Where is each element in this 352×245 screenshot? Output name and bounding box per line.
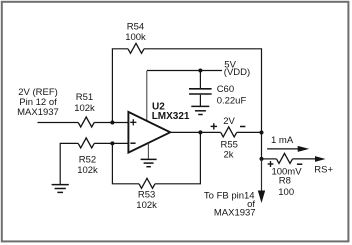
wire: FB bus down with arrow to MAX1937: [258, 159, 265, 203]
svg-text:(VDD): (VDD): [224, 67, 250, 78]
arrow: 1 mA current direction: [267, 135, 309, 152]
svg-text:MAX1937: MAX1937: [214, 208, 256, 219]
node: 5V / C60 junction: [198, 69, 202, 73]
node: - input junction: [110, 141, 114, 145]
svg-text:LMX321: LMX321: [152, 111, 190, 122]
resistor R52 102k: [77, 138, 98, 176]
op-amp U2 LMX321: [128, 102, 190, 153]
arrow: RS+ output: [314, 156, 333, 176]
svg-text:0.22uF: 0.22uF: [217, 96, 247, 107]
wire: right bus down to R8 row: [261, 133, 263, 159]
wire: op-amp V- pin to ground: [147, 144, 149, 159]
svg-text:R54: R54: [127, 21, 144, 32]
resistor R51 102k: [74, 92, 95, 127]
capacitor C60 0.22uF: [189, 71, 246, 107]
svg-text:100: 100: [278, 187, 294, 198]
ground (op-amp V-): [141, 159, 157, 166]
svg-text:100k: 100k: [125, 32, 146, 43]
svg-text:R51: R51: [76, 92, 93, 103]
svg-text:102k: 102k: [77, 165, 98, 176]
text: 5V (VDD) supply label: [224, 59, 250, 78]
resistor R55 2k with 2V sense labels: [211, 116, 262, 161]
svg-text:2V: 2V: [223, 116, 235, 127]
svg-text:102k: 102k: [136, 200, 157, 211]
resistor R54 100k feedback from output bus to + input: [112, 21, 261, 132]
svg-text:MAX1937: MAX1937: [17, 107, 59, 118]
svg-text:RS+: RS+: [314, 165, 333, 176]
wire: op-amp output: [171, 131, 221, 133]
wire: ground lead to R52: [60, 143, 78, 184]
svg-text:R52: R52: [79, 154, 96, 165]
node: R8 / FB junction: [260, 157, 264, 161]
node: output junction: [198, 130, 202, 134]
text: source label 2V (REF) Pin 12 of MAX1937: [17, 87, 59, 118]
svg-text:102k: 102k: [74, 103, 95, 114]
ground (C60): [191, 106, 209, 114]
wire: REF input to R51: [38, 122, 79, 124]
resistor R8 100 current sense with 100mV labels: [262, 153, 317, 198]
resistor R53 102k feedback output to - input: [112, 132, 200, 211]
text: To FB pin14 of MAX1937: [204, 190, 256, 218]
svg-text:R8: R8: [279, 176, 291, 187]
ground (R52 input side): [52, 185, 69, 193]
svg-text:R53: R53: [138, 190, 155, 201]
svg-text:2k: 2k: [223, 150, 233, 161]
svg-text:C60: C60: [217, 84, 234, 95]
node: + input junction: [110, 121, 114, 125]
wire: R51 to op-amp + input: [94, 122, 128, 124]
wire: R52 to op-amp - input: [94, 142, 128, 144]
node: R55 / right bus junction: [260, 131, 264, 135]
svg-text:1 mA: 1 mA: [271, 135, 294, 146]
wire: 5V supply rail to op-amp V+ pin: [146, 71, 148, 121]
